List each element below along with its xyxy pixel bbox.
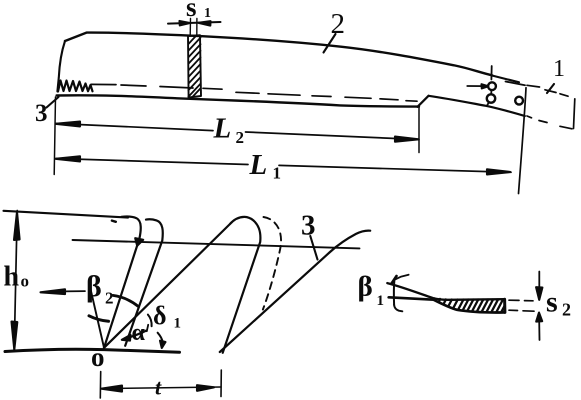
hole leader line (467, 85, 483, 87)
dashed tang outline (527, 85, 575, 129)
alpha angle arc (125, 331, 146, 339)
end piece top edge (493, 76, 520, 83)
hatched section bar s1 (188, 35, 201, 97)
svg-text:2: 2 (331, 8, 346, 40)
s2 lower arrowhead (536, 313, 542, 322)
s2 lower arrow line (538, 321, 540, 340)
beta2 pointer arrowhead (41, 289, 66, 294)
wedge bottom edge (389, 297, 505, 312)
svg-text:1: 1 (273, 164, 282, 183)
svg-text:s: s (546, 286, 558, 319)
tooth 1 tip junction blob (135, 238, 143, 246)
svg-text:β: β (86, 270, 102, 303)
label 1 leader (547, 84, 554, 93)
svg-text:β: β (358, 271, 373, 303)
end piece right edge and L1 extension (519, 88, 527, 194)
beta1 arc top flare (394, 275, 408, 280)
label 3 lower leader (310, 236, 317, 260)
rivet hole lower (487, 94, 495, 102)
L1 right arrowhead (487, 169, 511, 174)
rivet hole right (515, 97, 523, 105)
svg-text:t: t (155, 375, 162, 400)
beta2 pointer line (64, 290, 85, 292)
blade top edge (65, 33, 492, 76)
svg-text:1: 1 (174, 316, 182, 332)
tooth 2 outline (104, 217, 260, 353)
t dimension line (101, 387, 221, 389)
tooth 2 dashed stroke (263, 217, 281, 310)
beta2 reference line (90, 288, 104, 348)
tooth 3 outline (220, 231, 370, 352)
svg-text:h: h (4, 262, 20, 293)
tooth 1 back stroke (125, 219, 163, 346)
beta1 arc bottom hook (394, 305, 402, 312)
L2 right extension line (418, 107, 420, 153)
svg-text:L: L (249, 149, 268, 181)
h0 vertical dimension line (14, 211, 17, 351)
bar hatching (188, 36, 200, 97)
beta1 angle arc (393, 280, 396, 305)
svg-text:1: 1 (377, 293, 385, 309)
centerline dash-dot (91, 84, 417, 101)
L1 left arrowhead (56, 156, 81, 161)
t left arrowhead (101, 386, 122, 392)
beta1 arc top tick (392, 276, 397, 284)
blade left edge (57, 41, 65, 92)
L2 dimension line (56, 124, 419, 140)
svg-text:o: o (21, 272, 30, 291)
end piece bottom edge (429, 96, 525, 116)
svg-text:s: s (186, 0, 197, 22)
wedge hatching (434, 298, 505, 312)
svg-text:δ: δ (153, 301, 167, 330)
beta2 angle arc (89, 316, 109, 322)
wedge bevel and top edge (387, 283, 504, 300)
s1 dimension line (168, 22, 221, 24)
svg-text:3: 3 (301, 210, 316, 242)
svg-text:L: L (213, 113, 232, 145)
stray mark (112, 221, 116, 222)
end piece top edge double stroke (506, 82, 526, 86)
serration zigzag (58, 81, 93, 92)
alpha prime mark (147, 325, 148, 331)
label 3 leader (47, 97, 59, 108)
h0 top extension line (4, 211, 129, 218)
label 2 leader (324, 34, 336, 53)
link between holes (490, 90, 492, 94)
hole to edge tick (487, 102, 489, 105)
blade bottom edge (57, 95, 419, 106)
delta1 arc lower piece (158, 333, 163, 343)
svg-text:2: 2 (562, 300, 571, 320)
tooth tip line (73, 240, 360, 248)
s1 left arrowhead (180, 21, 191, 25)
alpha arc arrowhead (122, 335, 131, 341)
tooth 1 front stroke (104, 217, 141, 348)
L2 right arrowhead (395, 137, 419, 142)
s2 upper arrowhead (536, 287, 542, 300)
svg-text:3: 3 (35, 100, 48, 127)
s2 dashed line bottom (509, 310, 534, 311)
t right extension line (220, 370, 222, 397)
delta1 arc upper piece (148, 315, 152, 327)
tooth baseline (5, 349, 180, 352)
h0 top arrowhead (14, 212, 20, 240)
bar extension lines (189, 19, 191, 37)
svg-text:α: α (132, 320, 146, 346)
L2 left extension line (54, 97, 55, 175)
upper angle arc (113, 295, 139, 306)
h0 bottom arrowhead (12, 322, 18, 350)
hole leader arrowhead (482, 84, 489, 88)
svg-text:2: 2 (236, 128, 245, 147)
s2 dashed line top (509, 299, 533, 302)
wedge right edge (503, 299, 506, 312)
svg-text:1: 1 (553, 56, 565, 82)
t right arrowhead (197, 385, 214, 391)
s2 upper arrow line (538, 272, 540, 289)
delta1 arc arrowhead (160, 341, 166, 348)
rivet hole upper (488, 82, 496, 90)
svg-text:o: o (91, 342, 105, 372)
bottom edge step (418, 96, 429, 107)
svg-text:2: 2 (105, 289, 114, 308)
L1 dimension line (56, 159, 511, 173)
L2 left arrowhead (56, 122, 81, 127)
svg-text:1: 1 (204, 6, 211, 21)
s1 right arrowhead (199, 21, 211, 25)
t left extension line (99, 372, 101, 399)
hole center vertical mark (490, 66, 492, 80)
